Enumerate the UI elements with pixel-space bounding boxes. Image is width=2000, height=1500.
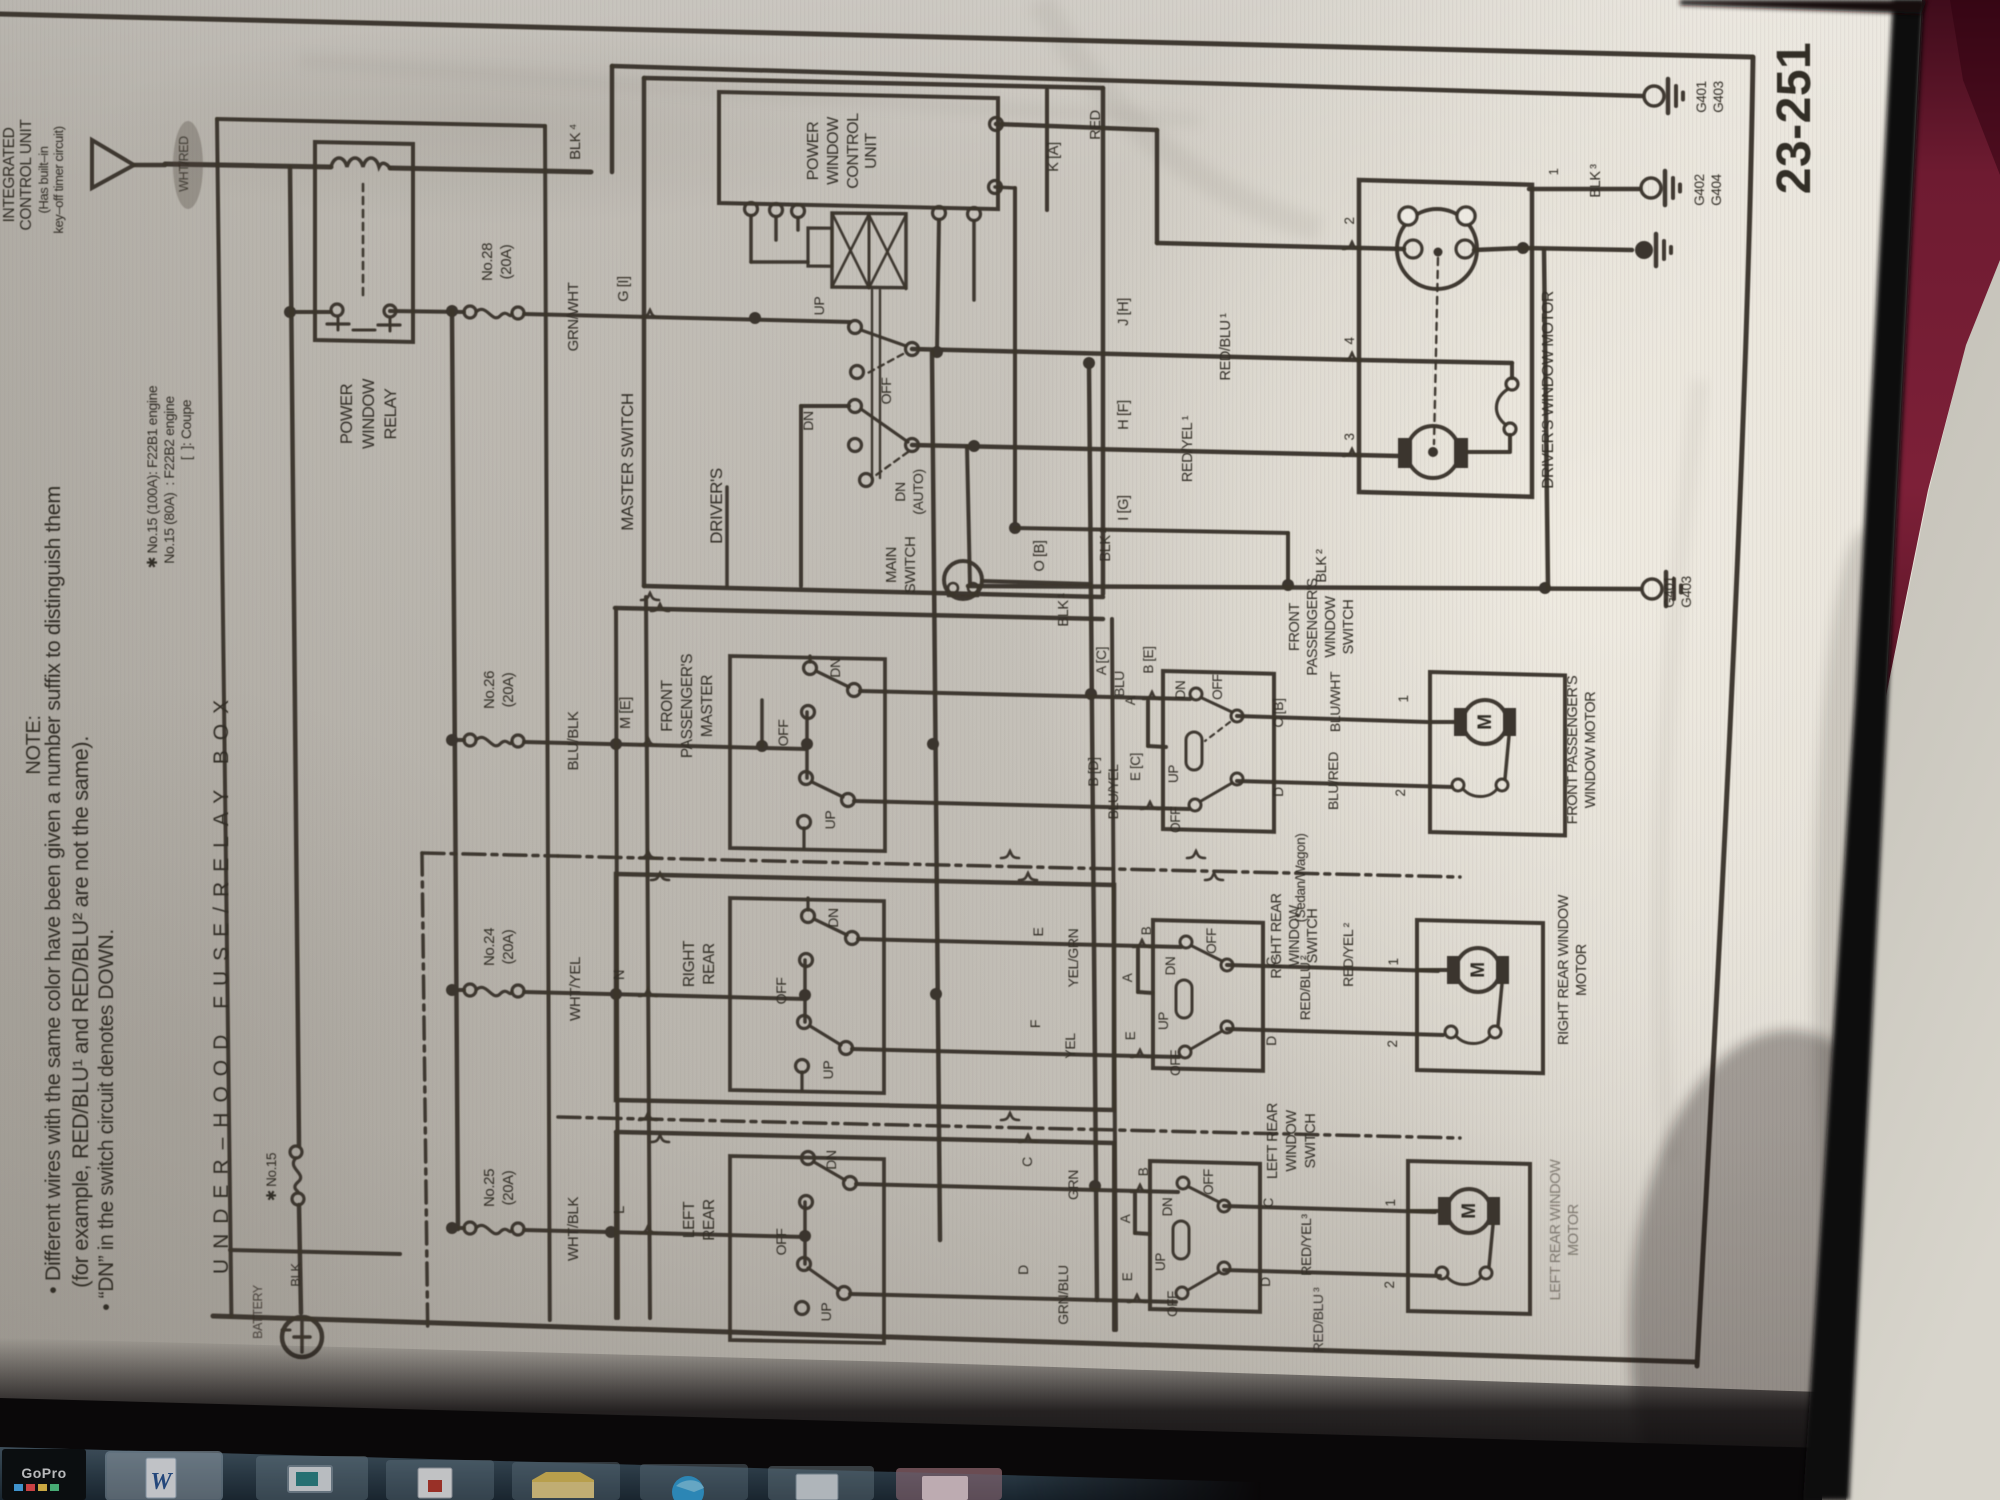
- svg-text:M: M: [1459, 1203, 1480, 1218]
- svg-text:WINDOW: WINDOW: [825, 116, 842, 185]
- svg-text:RED/YEL³: RED/YEL³: [1298, 1214, 1314, 1276]
- svg-text:BLK ²: BLK ²: [1098, 528, 1114, 562]
- svg-text:B: B: [1136, 1167, 1151, 1176]
- svg-text:CONTROL: CONTROL: [845, 113, 862, 189]
- svg-text:• Different wires with the sam: • Different wires with the same color ha…: [41, 486, 65, 1294]
- svg-text:RED/BLU ²: RED/BLU ²: [1297, 955, 1313, 1020]
- svg-text:A: A: [1118, 1214, 1133, 1223]
- svg-text:LEFT: LEFT: [681, 1201, 698, 1238]
- svg-text:N: N: [612, 970, 628, 980]
- svg-text:G403: G403: [1679, 576, 1694, 607]
- svg-text:DRIVER'S WINDOW MOTOR: DRIVER'S WINDOW MOTOR: [1540, 291, 1557, 489]
- svg-text:BLU/WHT: BLU/WHT: [1327, 671, 1343, 732]
- svg-text:1: 1: [1386, 958, 1401, 965]
- svg-text:2: 2: [1342, 217, 1357, 224]
- svg-text:OFF: OFF: [775, 720, 791, 747]
- svg-text:YEL/GRN: YEL/GRN: [1065, 929, 1081, 988]
- svg-text:OFF: OFF: [1204, 928, 1219, 954]
- svg-text:A [C]: A [C]: [1093, 647, 1109, 675]
- svg-text:RED: RED: [1088, 110, 1104, 139]
- svg-text:(AUTO): (AUTO): [910, 469, 926, 515]
- svg-text:MAIN: MAIN: [883, 547, 900, 583]
- svg-text:RED/YEL ¹: RED/YEL ¹: [1180, 415, 1196, 482]
- svg-text:J [H]: J [H]: [1116, 298, 1132, 326]
- svg-text:E: E: [1123, 1031, 1138, 1040]
- svg-text:I [G]: I [G]: [1116, 495, 1132, 520]
- svg-text:C: C: [1263, 957, 1279, 967]
- svg-text:L: L: [612, 1206, 628, 1214]
- svg-text:A: A: [1123, 696, 1138, 705]
- svg-text:RED/BLU ³: RED/BLU ³: [1310, 1287, 1326, 1352]
- svg-text:OFF: OFF: [1168, 1050, 1183, 1076]
- svg-text:• “DN” in the switch circuit d: • “DN” in the switch circuit denotes DOW…: [95, 929, 118, 1310]
- svg-text:DN: DN: [1160, 1198, 1175, 1217]
- svg-text:OFF: OFF: [1201, 1169, 1216, 1195]
- svg-text:BLK: BLK: [288, 1263, 303, 1287]
- svg-text:UP: UP: [811, 297, 827, 316]
- svg-text:1: 1: [1383, 1199, 1398, 1206]
- svg-text:DN: DN: [823, 1150, 839, 1169]
- svg-text:(20A): (20A): [500, 1170, 517, 1205]
- svg-text:BLU: BLU: [1111, 671, 1127, 697]
- svg-text:E [C]: E [C]: [1128, 753, 1143, 781]
- svg-text:G403: G403: [1711, 81, 1726, 112]
- svg-text:2: 2: [1385, 1040, 1400, 1047]
- svg-text:GRN/WHT: GRN/WHT: [565, 282, 582, 351]
- svg-text:key–off timer circuit): key–off timer circuit): [51, 126, 66, 233]
- svg-text:UNDER–HOOD FUSE/RELAY BOX: UNDER–HOOD FUSE/RELAY BOX: [210, 690, 233, 1274]
- svg-text:WHT/BLK: WHT/BLK: [565, 1197, 582, 1261]
- svg-text:B [D]: B [D]: [1085, 757, 1101, 786]
- svg-text:No.26: No.26: [481, 671, 498, 709]
- svg-text:F: F: [1027, 1020, 1043, 1028]
- svg-text:SWITCH: SWITCH: [902, 537, 919, 594]
- svg-text:WINDOW: WINDOW: [360, 378, 378, 449]
- svg-text:2: 2: [1393, 789, 1408, 796]
- svg-text:4: 4: [1342, 337, 1357, 345]
- svg-text:DN: DN: [1163, 957, 1178, 976]
- svg-text:GRN/BLU: GRN/BLU: [1055, 1265, 1071, 1325]
- svg-text:LEFT REAR: LEFT REAR: [1265, 1103, 1281, 1179]
- svg-text:UP: UP: [818, 1303, 834, 1322]
- svg-text:RIGHT: RIGHT: [681, 940, 698, 987]
- svg-text:PASSENGER'S: PASSENGER'S: [679, 654, 696, 758]
- svg-text:DN: DN: [827, 658, 843, 677]
- svg-text:BLU/BLK: BLU/BLK: [565, 711, 582, 770]
- svg-text:No.25: No.25: [481, 1169, 498, 1207]
- svg-text:(for example, RED/BLU¹ and RED: (for example, RED/BLU¹ and RED/BLU² are …: [68, 736, 93, 1288]
- svg-text:INTEGRATED: INTEGRATED: [1, 127, 18, 222]
- svg-text:D: D: [1015, 1265, 1031, 1275]
- svg-text:D: D: [1270, 787, 1286, 797]
- svg-text:RIGHT REAR WINDOW: RIGHT REAR WINDOW: [1556, 894, 1572, 1045]
- svg-text:DN: DN: [825, 908, 841, 927]
- svg-text:(20A): (20A): [500, 672, 517, 707]
- svg-text:G404: G404: [1709, 173, 1724, 205]
- svg-text:A: A: [1120, 973, 1135, 982]
- svg-text:23-251: 23-251: [1768, 42, 1821, 194]
- svg-text:FRONT: FRONT: [1287, 602, 1303, 650]
- svg-text:OFF: OFF: [1210, 674, 1225, 700]
- svg-text:D: D: [1263, 1036, 1279, 1046]
- svg-text:(20A): (20A): [498, 244, 515, 279]
- svg-text:[ ]: Coupe: [ ]: Coupe: [178, 399, 194, 460]
- svg-text:G [I]: G [I]: [616, 276, 632, 301]
- svg-text:MASTER SWITCH: MASTER SWITCH: [618, 393, 637, 530]
- svg-text:M: M: [1468, 962, 1489, 977]
- svg-text:G401: G401: [1662, 576, 1677, 607]
- svg-text:B [E]: B [E]: [1141, 646, 1156, 673]
- svg-text:FRONT PASSENGER'S: FRONT PASSENGER'S: [1565, 676, 1581, 825]
- svg-text:LEFT REAR WINDOW: LEFT REAR WINDOW: [1548, 1159, 1564, 1300]
- svg-text:G401: G401: [1694, 81, 1709, 112]
- svg-text:BLK ⁴: BLK ⁴: [567, 124, 584, 160]
- svg-text:FRONT: FRONT: [659, 679, 676, 731]
- svg-text:M [E]: M [E]: [618, 697, 634, 729]
- svg-text:PASSENGER'S: PASSENGER'S: [1305, 578, 1321, 675]
- svg-text:REAR: REAR: [701, 1199, 718, 1241]
- svg-text:REAR: REAR: [701, 943, 718, 985]
- svg-text:C: C: [1019, 1157, 1035, 1167]
- svg-text:WINDOW MOTOR: WINDOW MOTOR: [1583, 692, 1599, 809]
- svg-text:UP: UP: [1156, 1012, 1171, 1030]
- svg-text:BATTERY: BATTERY: [251, 1284, 265, 1339]
- svg-text:MOTOR: MOTOR: [1566, 1204, 1582, 1256]
- svg-text:RELAY: RELAY: [382, 388, 400, 439]
- svg-text:D: D: [1257, 1277, 1273, 1287]
- svg-text:✱ No.15: ✱ No.15: [264, 1153, 279, 1201]
- svg-text:(20A): (20A): [500, 929, 517, 964]
- svg-text:WINDOW: WINDOW: [1323, 596, 1339, 658]
- svg-text:DN: DN: [800, 411, 816, 430]
- svg-text:E: E: [1120, 1272, 1135, 1281]
- svg-text:OFF: OFF: [1165, 1291, 1180, 1317]
- svg-text:UP: UP: [822, 811, 838, 830]
- svg-text:SWITCH: SWITCH: [1305, 909, 1321, 964]
- svg-text:SWITCH: SWITCH: [1303, 1114, 1319, 1169]
- svg-text:1: 1: [1396, 695, 1411, 702]
- svg-text:SWITCH: SWITCH: [1341, 600, 1357, 655]
- svg-text:RED/BLU ¹: RED/BLU ¹: [1218, 313, 1234, 381]
- svg-text:OFF: OFF: [773, 978, 789, 1005]
- svg-text:3: 3: [1342, 433, 1357, 440]
- svg-text:H [F]: H [F]: [1116, 400, 1132, 429]
- svg-text:BLK ¹: BLK ¹: [1056, 593, 1072, 627]
- svg-text:OFF: OFF: [878, 378, 894, 405]
- svg-text:WINDOW: WINDOW: [1284, 1110, 1300, 1172]
- svg-text:UNIT: UNIT: [863, 133, 880, 169]
- svg-text:DN: DN: [892, 482, 908, 501]
- svg-text:UP: UP: [1153, 1253, 1168, 1271]
- svg-text:WHT/RED: WHT/RED: [177, 136, 191, 192]
- svg-text:(Has built–in: (Has built–in: [36, 146, 51, 213]
- svg-text:2: 2: [1382, 1281, 1397, 1288]
- svg-text:M: M: [1475, 714, 1496, 729]
- svg-text:BLK ²: BLK ²: [1314, 549, 1330, 583]
- svg-text:No.28: No.28: [479, 243, 496, 281]
- svg-text:O [B]: O [B]: [1032, 540, 1048, 571]
- svg-text:OFF: OFF: [773, 1229, 789, 1256]
- svg-text:BLU/RED: BLU/RED: [1325, 752, 1341, 810]
- svg-text:B: B: [1139, 926, 1154, 935]
- svg-text:CONTROL UNIT: CONTROL UNIT: [18, 119, 35, 231]
- svg-text:GRN: GRN: [1065, 1170, 1081, 1200]
- svg-text:RED/YEL ²: RED/YEL ²: [1340, 922, 1356, 987]
- svg-text:G402: G402: [1692, 174, 1707, 205]
- svg-text:UP: UP: [1166, 765, 1181, 783]
- svg-text:YEL: YEL: [1062, 1033, 1078, 1059]
- svg-text:MOTOR: MOTOR: [1574, 944, 1590, 996]
- svg-text:No.24: No.24: [481, 928, 498, 966]
- svg-text:No.15 (80A) : F22B2 engine: No.15 (80A) : F22B2 engine: [161, 396, 177, 564]
- svg-text:BLU/YEL: BLU/YEL: [1105, 764, 1121, 819]
- svg-text:BLK ³: BLK ³: [1588, 164, 1604, 198]
- svg-text:DN: DN: [1173, 681, 1188, 700]
- svg-text:WHT/YEL: WHT/YEL: [567, 957, 584, 1021]
- svg-text:POWER: POWER: [805, 122, 822, 180]
- svg-text:UP: UP: [820, 1061, 836, 1080]
- svg-text:K [A]: K [A]: [1046, 142, 1062, 171]
- svg-text:C [B]: C [B]: [1270, 698, 1286, 727]
- svg-text:POWER: POWER: [338, 383, 356, 444]
- svg-text:MASTER: MASTER: [699, 675, 716, 737]
- svg-text:✱ No.15 (100A): F22B1 engine: ✱ No.15 (100A): F22B1 engine: [144, 385, 160, 568]
- svg-text:1: 1: [1546, 168, 1561, 175]
- svg-text:OFF: OFF: [1168, 807, 1183, 833]
- svg-text:E: E: [1030, 927, 1046, 936]
- svg-text:DRIVER'S: DRIVER'S: [707, 468, 726, 544]
- svg-text:C: C: [1260, 1198, 1276, 1208]
